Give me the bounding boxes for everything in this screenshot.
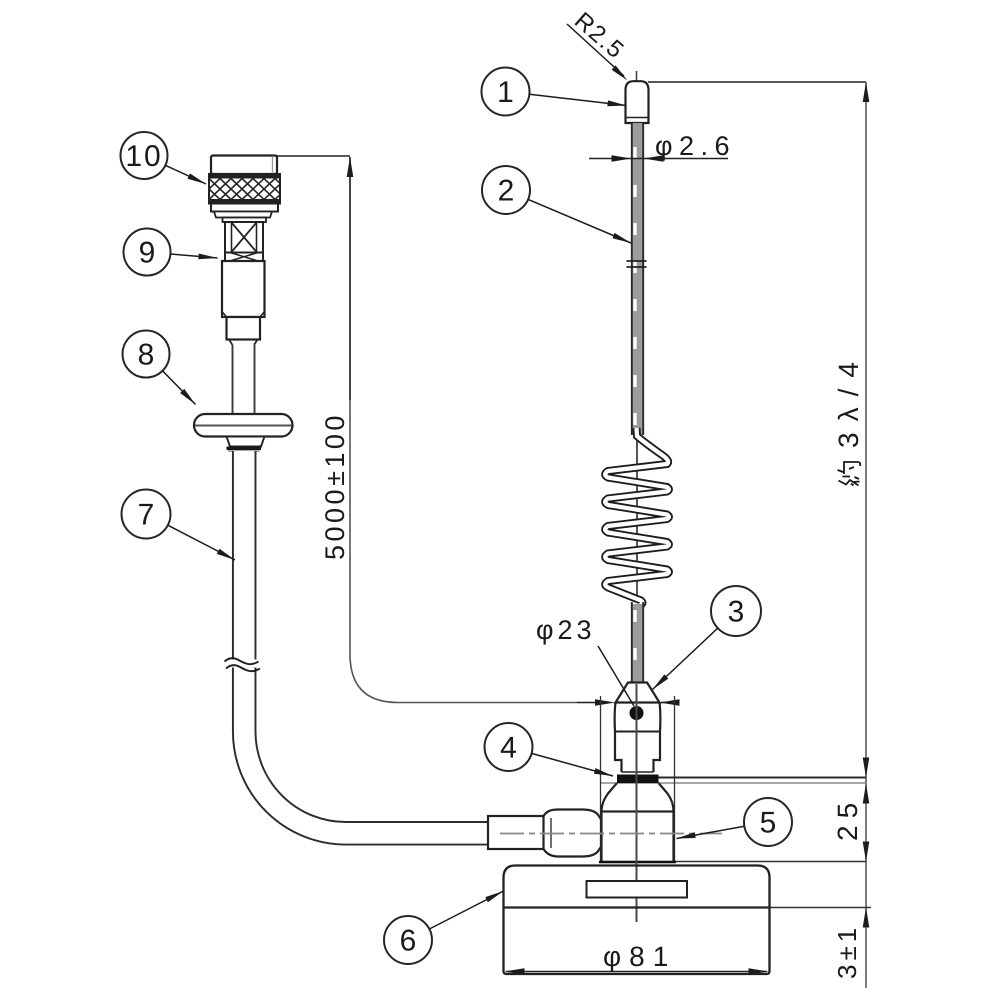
whip rod lower: [632, 604, 643, 684]
arrow up 25 top: [863, 784, 870, 804]
svg-text:3: 3: [728, 596, 745, 629]
connector top cap (item 10 area): [211, 156, 277, 175]
callout 2: [482, 166, 530, 214]
5000 dimension polyline with rounded corner: [350, 157, 577, 703]
callout 4: [485, 723, 533, 771]
horizontal chain centerline: [500, 833, 722, 835]
dimension text approx 3lambda/4: [833, 351, 864, 485]
svg-text:1: 1: [497, 76, 514, 109]
arrow up 5000: [347, 157, 354, 177]
svg-text:7: 7: [138, 499, 155, 532]
base label rect: [587, 881, 688, 898]
ferrite bead item 8: [194, 414, 293, 437]
callout 3: [711, 586, 761, 636]
antenna tip cap item 1: [626, 81, 649, 123]
callout 5: [744, 798, 792, 846]
whip rod upper item 2: [632, 123, 643, 435]
svg-text:φ81: φ81: [603, 941, 676, 972]
extension line at gasket dark: [655, 777, 866, 779]
right vertical dimension line: [865, 82, 867, 988]
neck tube: [232, 345, 234, 414]
item 9 cross box: [225, 222, 263, 253]
svg-text:9: 9: [139, 237, 156, 270]
collar below bead: [227, 437, 265, 447]
taper to neck: [229, 340, 258, 346]
callout 7: [122, 490, 171, 539]
svg-text:25: 25: [832, 796, 863, 841]
dimension text 5000pm100: [320, 412, 350, 560]
phi 2.6 dimension: [589, 158, 728, 160]
helical coil item 2/3: [605, 428, 669, 606]
extension line at gasket grey: [600, 782, 866, 784]
rod break marks: [627, 260, 647, 262]
svg-text:5000±100: 5000±100: [320, 412, 350, 560]
coaxial cable item 7: [244, 451, 488, 833]
extension line mount bottom to dim: [675, 861, 867, 863]
callout 9: [124, 229, 171, 276]
mount top cone item 3: [616, 683, 660, 703]
extension line from antenna tip to right dimension: [648, 81, 866, 83]
arrow up 3lambda/4 top: [863, 82, 870, 102]
svg-text:10: 10: [125, 140, 162, 173]
extension line base seam to dim: [770, 907, 872, 909]
svg-text:5: 5: [760, 807, 777, 840]
item 9 small cross box: [225, 253, 263, 262]
mount lower body item 5: [602, 812, 674, 863]
callout 6: [384, 916, 432, 964]
magnet base outline: [504, 866, 770, 975]
cable break symbol: [227, 660, 263, 668]
R2.5 leader and text: [567, 24, 624, 76]
phi23 boundary left: [600, 696, 602, 862]
svg-text:2: 2: [498, 175, 515, 208]
gasket item 4: [617, 775, 659, 784]
connector barrel item 5 area: [544, 810, 602, 857]
arrow right at mount (phi23 left): [577, 702, 610, 704]
coil centerline: [636, 438, 638, 602]
extension line from connector top: [277, 155, 350, 157]
dimension text 25: [832, 796, 863, 841]
item 9 bellows collar: [223, 218, 267, 223]
svg-text:φ23: φ23: [536, 615, 596, 645]
svg-text:φ2.6: φ2.6: [655, 131, 736, 161]
arrow down 25 bottom: [863, 842, 870, 862]
svg-text:8: 8: [138, 339, 155, 372]
phi81 dimension: [506, 971, 767, 973]
svg-text:3±1: 3±1: [832, 924, 862, 979]
svg-text:4: 4: [500, 732, 517, 765]
arrow left at mount (phi23 right): [661, 702, 676, 704]
mount skirt: [602, 783, 674, 812]
dimension text 3pm1: [832, 924, 862, 979]
arrow up 3pm1: [863, 908, 870, 928]
mount centerline: [636, 684, 638, 922]
base seam line: [504, 906, 770, 908]
ring band below knurl: [211, 204, 278, 212]
phi23 leader: [598, 646, 634, 706]
mount dome: [615, 703, 661, 732]
connector body upper: [222, 261, 265, 317]
callout 8: [123, 331, 170, 378]
svg-text:6: 6: [400, 925, 417, 958]
cable ferrule: [488, 816, 544, 849]
callout 10: [121, 132, 168, 179]
centerline above tip cap: [636, 71, 638, 81]
feed dot: [630, 706, 644, 720]
mount bottom thick line: [599, 861, 676, 864]
mount body sides: [615, 732, 660, 773]
callout 1: [482, 68, 530, 116]
svg-text:3λ/4: 3λ/4: [833, 351, 864, 448]
phi23 boundary right: [674, 696, 676, 862]
arrow down 3lambda/4 bottom: [863, 758, 870, 778]
connector body lower: [227, 317, 261, 340]
knurled coupling ring item 10: [209, 174, 280, 204]
